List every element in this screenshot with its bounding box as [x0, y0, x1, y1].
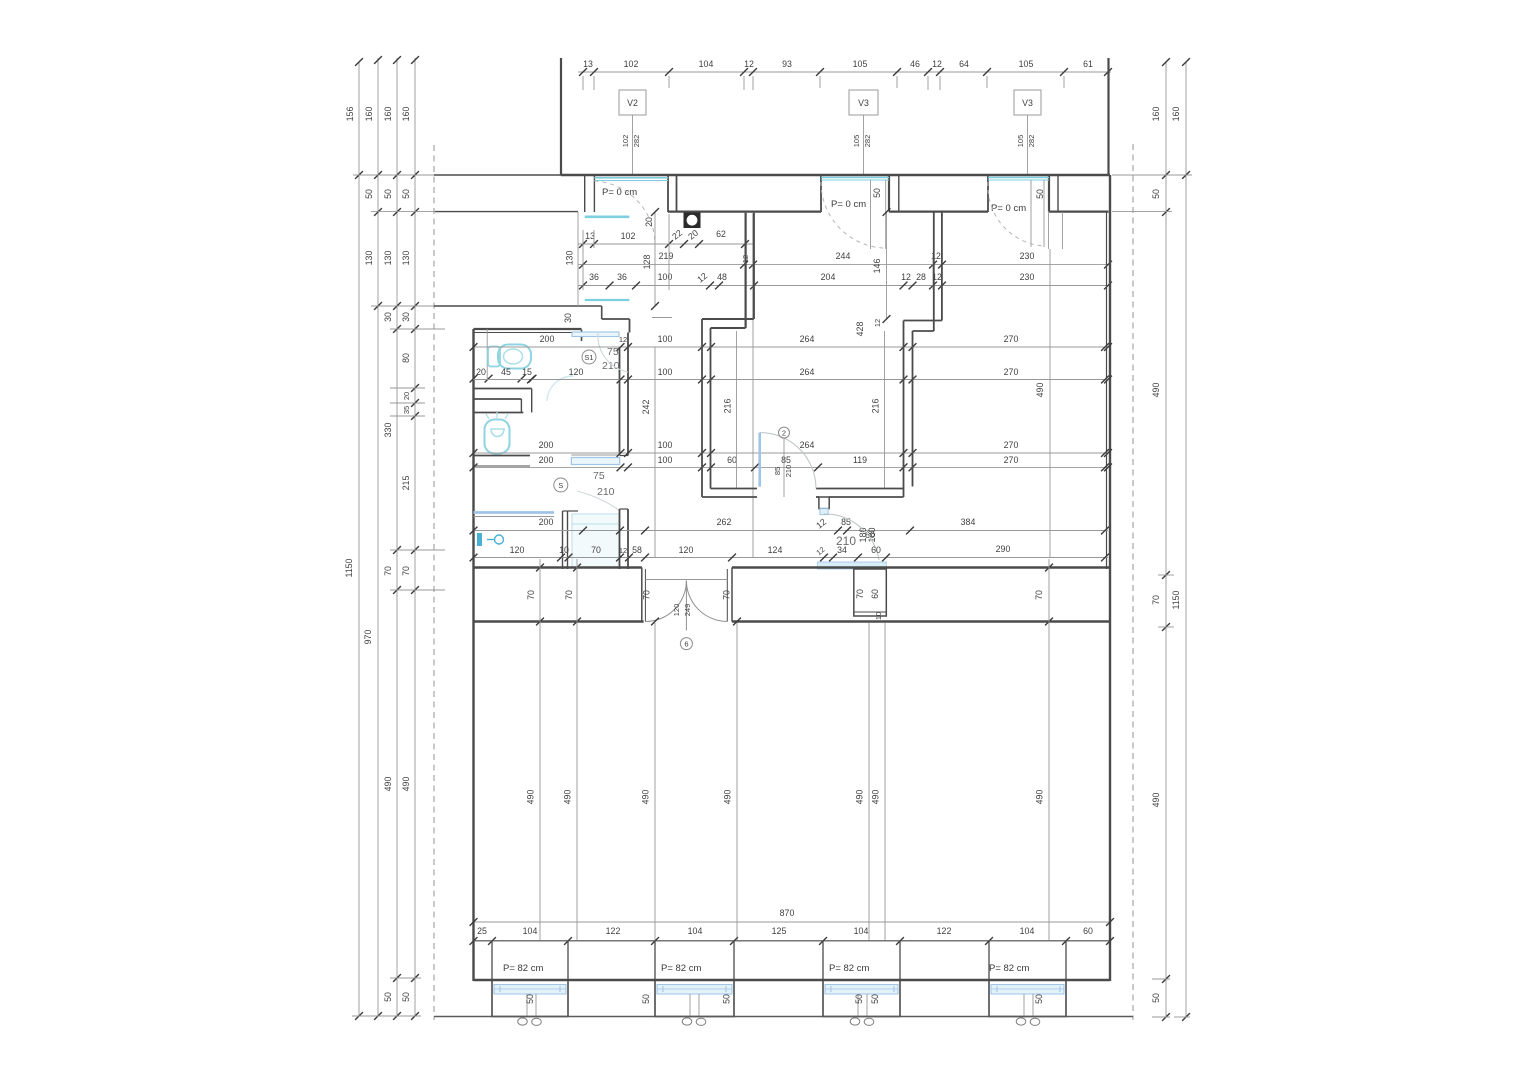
- svg-text:104: 104: [688, 926, 703, 936]
- svg-text:P= 82 cm: P= 82 cm: [661, 963, 701, 974]
- svg-text:12: 12: [901, 272, 911, 282]
- central room left wall pair: [702, 319, 711, 497]
- window jambs bottom wall: [492, 941, 1066, 980]
- door tag circle 2: [779, 427, 790, 497]
- svg-text:20: 20: [686, 228, 700, 242]
- svg-text:1150: 1150: [1171, 590, 1181, 609]
- svg-text:200: 200: [539, 517, 554, 527]
- V2 leader: [632, 115, 634, 175]
- central room door blue leaf: [758, 433, 761, 487]
- svg-text:384: 384: [961, 517, 976, 527]
- svg-text:P= 82 cm: P= 82 cm: [829, 963, 869, 974]
- svg-text:124: 124: [768, 545, 783, 555]
- svg-text:219: 219: [659, 251, 674, 261]
- svg-text:70: 70: [591, 545, 601, 555]
- top wall inner face segments: [435, 211, 1109, 213]
- door bay2 leaf lines: [871, 180, 886, 249]
- svg-text:490: 490: [641, 790, 651, 805]
- ticks right: [1162, 58, 1190, 1021]
- door bay3 leaf lines: [1031, 180, 1044, 247]
- svg-text:128: 128: [642, 255, 652, 270]
- svg-text:120: 120: [510, 545, 525, 555]
- central spine wall upper: [620, 333, 629, 456]
- main door tag circle: [680, 638, 692, 650]
- svg-text:100: 100: [658, 455, 673, 465]
- svg-text:12: 12: [932, 59, 942, 69]
- svg-text:282: 282: [632, 135, 641, 148]
- footing circles under balcony 2: [682, 1018, 706, 1026]
- svg-text:160: 160: [1151, 107, 1161, 122]
- svg-text:70: 70: [526, 590, 536, 600]
- divider jamb verticals: [521, 389, 531, 413]
- entry column black square: [684, 213, 701, 229]
- main door lintel: [645, 579, 727, 581]
- dim row y467.4 200/100/60/85/119/270: [470, 455, 1112, 471]
- svg-text:V2: V2: [627, 98, 638, 108]
- svg-text:264: 264: [800, 440, 815, 450]
- central room right wall pair: [904, 321, 913, 498]
- svg-text:160: 160: [364, 107, 374, 122]
- svg-text:10: 10: [874, 612, 883, 620]
- ticks left line3: [393, 56, 401, 1020]
- terrace rot labels: [563, 251, 575, 323]
- bath window sill cyan: [571, 455, 619, 465]
- bath top window cyan sill: [572, 332, 619, 337]
- toilet 1 (cyan): [488, 345, 531, 369]
- balcony box 3: [823, 980, 900, 1017]
- svg-text:36: 36: [617, 272, 627, 282]
- svg-text:70: 70: [642, 590, 652, 600]
- witness verticals below top dim: [583, 214, 942, 558]
- svg-text:50: 50: [401, 992, 411, 1002]
- svg-text:105: 105: [1016, 135, 1025, 148]
- svg-text:1150: 1150: [344, 558, 354, 577]
- door bay2 cyan head: [821, 178, 889, 181]
- dim row y557.5 120/10/70/12/58/120/124/12/34/60/290: [470, 545, 890, 561]
- svg-text:330: 330: [383, 423, 393, 438]
- central room top-left step wall: [702, 213, 754, 328]
- svg-text:12: 12: [619, 335, 627, 344]
- svg-text:120: 120: [672, 604, 681, 617]
- shower thin line: [474, 516, 555, 518]
- dim extension connectors left: [353, 175, 445, 590]
- toilet room divider wall 2: [474, 412, 524, 414]
- left dim chain line 3: [396, 58, 398, 1016]
- svg-text:490: 490: [855, 790, 865, 805]
- svg-text:13: 13: [585, 231, 595, 241]
- dim row y244 13/102/22/20/62: [578, 228, 753, 248]
- svg-text:230: 230: [1020, 272, 1035, 282]
- S door arc lower: [577, 491, 619, 510]
- V3 right leader: [1027, 115, 1029, 175]
- svg-text:P= 0 cm: P= 0 cm: [991, 203, 1026, 214]
- svg-text:50: 50: [1151, 993, 1161, 1003]
- door bay2 jambs: [821, 175, 899, 212]
- svg-text:490: 490: [1151, 793, 1161, 808]
- svg-text:28: 28: [916, 272, 926, 282]
- svg-text:60: 60: [865, 530, 875, 540]
- door bay3 cyan head: [988, 178, 1049, 181]
- bathroom mid divider wall (below toilet2): [474, 456, 531, 467]
- svg-text:970: 970: [363, 630, 373, 645]
- svg-text:70: 70: [1151, 595, 1161, 605]
- svg-text:119: 119: [853, 455, 867, 465]
- svg-text:70: 70: [855, 589, 865, 599]
- svg-text:25: 25: [477, 926, 487, 936]
- V3 right size labels: [1016, 135, 1036, 148]
- svg-text:50: 50: [1035, 189, 1045, 199]
- svg-text:270: 270: [1004, 367, 1019, 377]
- svg-text:210: 210: [784, 465, 793, 478]
- top dim witness stubs: [583, 76, 1064, 90]
- 70 rot labels in band: [526, 590, 1044, 600]
- svg-text:12: 12: [744, 59, 754, 69]
- svg-text:490: 490: [383, 777, 393, 792]
- V3 tag box (right): [1014, 90, 1041, 115]
- svg-text:102: 102: [624, 59, 639, 69]
- svg-text:50: 50: [383, 189, 393, 199]
- svg-text:20: 20: [476, 367, 486, 377]
- svg-text:100: 100: [658, 367, 673, 377]
- svg-text:100: 100: [658, 272, 673, 282]
- svg-text:230: 230: [1020, 251, 1035, 261]
- ticks left line4: [411, 56, 419, 1020]
- svg-text:50: 50: [872, 188, 882, 198]
- right exterior wall inner: [1106, 212, 1108, 569]
- V3 tag box (middle): [849, 90, 878, 115]
- hall witness verticals with 490 labels: [540, 559, 1049, 940]
- main door rot labels 120/249: [672, 604, 692, 617]
- bay1 dashed door swing: [594, 181, 655, 245]
- svg-text:30: 30: [383, 312, 393, 322]
- chimney box: [854, 569, 887, 616]
- svg-text:13: 13: [583, 59, 593, 69]
- terrace side vertical: [577, 212, 579, 306]
- bottom wall outer: [474, 979, 1111, 982]
- svg-text:100: 100: [658, 334, 673, 344]
- svg-text:215: 215: [401, 476, 411, 491]
- central room bottom wall left part: [702, 489, 757, 498]
- svg-text:204: 204: [821, 272, 836, 282]
- svg-text:428: 428: [855, 322, 865, 337]
- upper projection right edge wall: [1107, 58, 1109, 176]
- svg-text:60: 60: [1083, 926, 1093, 936]
- svg-text:85: 85: [781, 455, 791, 465]
- P=82 labels: [503, 963, 1029, 974]
- 216 vertical witness left: [723, 331, 737, 488]
- right room 384/290 rows: [886, 544, 1109, 561]
- svg-text:160: 160: [1171, 107, 1181, 122]
- main door double swing arcs: [645, 581, 727, 631]
- svg-text:12: 12: [695, 271, 709, 285]
- footing circles under balcony 4: [1016, 1018, 1040, 1026]
- svg-text:264: 264: [800, 334, 815, 344]
- svg-text:93: 93: [782, 59, 792, 69]
- left dim chain line 2: [377, 58, 379, 1016]
- svg-text:216: 216: [871, 399, 881, 414]
- svg-text:60: 60: [871, 545, 881, 555]
- left dim chain line 4: [414, 58, 416, 1016]
- shower cyan line: [474, 511, 555, 514]
- ground baseline: [434, 1016, 1133, 1018]
- upper projection left edge wall: [560, 58, 562, 175]
- svg-text:62: 62: [716, 229, 726, 239]
- svg-text:242: 242: [641, 400, 651, 415]
- svg-text:105: 105: [1019, 59, 1034, 69]
- central spine wall lower: [620, 509, 629, 569]
- svg-text:P= 82 cm: P= 82 cm: [503, 963, 543, 974]
- svg-text:490: 490: [1035, 383, 1045, 398]
- svg-text:15: 15: [522, 367, 532, 377]
- svg-text:70: 70: [383, 566, 393, 576]
- door bay3 dashed swing: [988, 182, 1044, 246]
- stub door wall piece: [819, 497, 829, 515]
- svg-text:244: 244: [836, 251, 851, 261]
- dim row y285.5 36/36/100/12/48/204/12/28/12/230: [578, 271, 1112, 290]
- dashed boundary line left: [433, 145, 435, 1020]
- svg-text:490: 490: [401, 777, 411, 792]
- svg-text:270: 270: [1004, 455, 1019, 465]
- svg-text:270: 270: [1004, 440, 1019, 450]
- svg-text:50: 50: [870, 994, 880, 1004]
- svg-text:48: 48: [717, 272, 727, 282]
- left dim stubs at bottom: [352, 1015, 384, 1017]
- svg-text:264: 264: [800, 367, 815, 377]
- witness line in wc: [486, 329, 488, 379]
- svg-text:125: 125: [772, 926, 787, 936]
- svg-text:20: 20: [644, 217, 654, 227]
- bottom wall inner line: [474, 940, 1111, 942]
- 490 rot labels in hall: [526, 790, 1045, 805]
- right dim stubs at bottom: [1152, 1016, 1170, 1018]
- wardrobe cyan box: [572, 514, 619, 568]
- svg-text:30: 30: [401, 312, 411, 322]
- 216 vertical witness right: [871, 331, 885, 488]
- svg-text:870: 870: [780, 908, 795, 918]
- svg-text:156: 156: [345, 107, 355, 122]
- window bay1 jambs: [585, 175, 677, 212]
- bathroom top wall: [474, 329, 582, 333]
- svg-text:70: 70: [1034, 590, 1044, 600]
- svg-text:75: 75: [593, 470, 605, 482]
- svg-text:85: 85: [773, 467, 782, 475]
- door bay2 dashed swing: [821, 182, 883, 248]
- svg-text:50: 50: [364, 189, 374, 199]
- upper band wall: [474, 566, 1111, 569]
- scribble labels: [858, 527, 877, 542]
- svg-text:50: 50: [722, 994, 732, 1004]
- svg-text:12: 12: [619, 546, 627, 555]
- svg-text:200: 200: [539, 440, 554, 450]
- svg-text:61: 61: [1083, 59, 1093, 69]
- svg-text:282: 282: [863, 135, 872, 148]
- svg-text:102: 102: [621, 231, 636, 241]
- svg-text:46: 46: [910, 59, 920, 69]
- toilet room divider wall 1: [474, 388, 532, 390]
- svg-text:36: 36: [589, 272, 599, 282]
- V2 size labels: [621, 135, 641, 148]
- S door circle tag lower: [554, 478, 568, 492]
- svg-text:50: 50: [854, 994, 864, 1004]
- svg-text:45: 45: [501, 367, 511, 377]
- svg-text:22: 22: [670, 228, 684, 242]
- svg-text:V3: V3: [1022, 98, 1033, 108]
- svg-text:270: 270: [1004, 334, 1019, 344]
- second blue step line: [585, 299, 630, 301]
- svg-text:60: 60: [870, 589, 880, 599]
- toilet 2 (cyan): [485, 412, 510, 454]
- left dim labels: [344, 107, 411, 1002]
- cyan strip above chimney: [818, 562, 887, 569]
- svg-text:216: 216: [723, 399, 733, 414]
- svg-text:160: 160: [401, 107, 411, 122]
- svg-text:490: 490: [563, 790, 573, 805]
- bathroom top-right step: [582, 306, 630, 341]
- svg-text:P= 0 cm: P= 0 cm: [831, 199, 866, 210]
- dim extension connectors right: [1112, 175, 1192, 627]
- dim row y264.6 219/244/230: [578, 251, 1112, 318]
- svg-text:490: 490: [723, 790, 733, 805]
- balcony box 4: [989, 980, 1066, 1017]
- band witness ticks top/bottom: [536, 564, 1053, 626]
- window bay1 cyan frame: [594, 178, 668, 181]
- footing circles under balcony 3: [850, 1018, 874, 1026]
- ticks left line1: [355, 58, 363, 1020]
- svg-text:12: 12: [873, 319, 882, 327]
- central room bottom wall right part: [816, 489, 904, 498]
- svg-text:35: 35: [402, 406, 411, 414]
- svg-text:80: 80: [401, 353, 411, 363]
- svg-text:34: 34: [837, 545, 847, 555]
- main door jambs: [642, 568, 732, 622]
- svg-text:64: 64: [959, 59, 969, 69]
- svg-text:12: 12: [814, 517, 828, 531]
- chimney labels: [855, 589, 883, 620]
- svg-text:249: 249: [683, 604, 692, 617]
- svg-text:P= 82 cm: P= 82 cm: [989, 963, 1029, 974]
- balcony box 1: [492, 980, 568, 1017]
- svg-text:104: 104: [854, 926, 869, 936]
- svg-text:75: 75: [607, 346, 619, 358]
- svg-text:100: 100: [658, 440, 673, 450]
- svg-text:10: 10: [559, 545, 569, 555]
- svg-text:130: 130: [401, 251, 411, 266]
- S1 door arc: [598, 333, 628, 372]
- bottom dim row 25/104/122/104/125/104/122/104/60: [470, 926, 1114, 945]
- right dim chain line 1: [1165, 62, 1167, 1017]
- svg-text:50: 50: [1034, 994, 1044, 1004]
- svg-text:490: 490: [526, 790, 536, 805]
- svg-text:290: 290: [996, 544, 1011, 554]
- svg-text:120: 120: [569, 367, 584, 377]
- svg-text:12: 12: [814, 545, 826, 557]
- 146 vertical dim: [872, 208, 890, 323]
- wc dims 20/45/15: [470, 367, 537, 383]
- svg-text:60: 60: [727, 455, 737, 465]
- svg-text:210: 210: [602, 360, 620, 372]
- svg-text:105: 105: [852, 135, 861, 148]
- svg-text:30: 30: [563, 313, 573, 323]
- svg-text:282: 282: [1027, 135, 1036, 148]
- svg-text:130: 130: [364, 251, 374, 266]
- S door size labels lower: [593, 470, 615, 498]
- svg-text:105: 105: [853, 59, 868, 69]
- svg-text:210: 210: [597, 486, 615, 498]
- svg-text:490: 490: [1035, 790, 1045, 805]
- svg-text:S1: S1: [584, 353, 593, 362]
- 870 dim line: [470, 908, 1114, 926]
- svg-text:V3: V3: [858, 98, 869, 108]
- terrace step line: [434, 305, 602, 307]
- svg-text:130: 130: [565, 251, 575, 266]
- svg-text:50: 50: [1151, 189, 1161, 199]
- top dim labels: [583, 59, 1093, 69]
- 128 vertical dim: [642, 208, 659, 310]
- toilet room door arc: [547, 376, 573, 401]
- svg-text:160: 160: [383, 107, 393, 122]
- svg-text:122: 122: [937, 926, 952, 936]
- svg-text:120: 120: [679, 545, 694, 555]
- top facade wall outer face: [434, 174, 561, 176]
- central/right rooms top step: [904, 212, 942, 331]
- lower band wall: [474, 620, 1111, 623]
- svg-text:50: 50: [525, 994, 535, 1004]
- right room 490 witness: [1035, 249, 1050, 557]
- svg-text:70: 70: [722, 590, 732, 600]
- dim row y530 262/12/85/364: [470, 517, 1109, 535]
- shower faucet symbol: [477, 533, 504, 546]
- svg-text:262: 262: [717, 517, 732, 527]
- V3 leader: [863, 115, 865, 175]
- toilet room divider wall 1b: [474, 398, 522, 400]
- V3 size labels: [852, 135, 872, 148]
- svg-text:102: 102: [621, 135, 630, 148]
- central room door arc: [760, 433, 816, 489]
- left exterior wall: [472, 329, 474, 981]
- svg-text:104: 104: [1020, 926, 1035, 936]
- svg-text:146: 146: [872, 259, 882, 274]
- top dim ticks: [579, 68, 1112, 76]
- svg-text:6: 6: [684, 640, 688, 649]
- svg-text:S: S: [558, 481, 563, 490]
- svg-text:70: 70: [564, 590, 574, 600]
- svg-text:20: 20: [402, 392, 411, 400]
- right dim labels: [1151, 107, 1181, 1003]
- svg-text:490: 490: [871, 790, 881, 805]
- svg-text:490: 490: [1151, 383, 1161, 398]
- balcony box 2: [655, 980, 734, 1017]
- dim row y453 200/100/264/270: [470, 440, 1112, 457]
- svg-text:50: 50: [641, 994, 651, 1004]
- 242 vertical dim corridor: [641, 347, 655, 557]
- svg-text:104: 104: [699, 59, 714, 69]
- left dim chain line 1: [358, 62, 360, 1016]
- dim row y347 200/12/100/12/264/270: [470, 334, 1112, 351]
- balcony 2 50 labels: [641, 994, 732, 1004]
- right room door bay leafs: [1049, 212, 1063, 249]
- ticks left line2: [374, 56, 382, 1020]
- bay1 step cyan sill: [585, 216, 630, 219]
- S1 door circle tag: [582, 350, 596, 364]
- door bay3 jambs: [988, 175, 1058, 212]
- right dim chain line 2: [1185, 62, 1187, 1017]
- stub door arc: [824, 514, 879, 560]
- svg-text:200: 200: [539, 455, 554, 465]
- dim row y379.5 120/100/264/270: [474, 367, 1112, 383]
- svg-text:70: 70: [401, 566, 411, 576]
- footing circles under balcony 1: [518, 1018, 542, 1026]
- svg-text:50: 50: [383, 992, 393, 1002]
